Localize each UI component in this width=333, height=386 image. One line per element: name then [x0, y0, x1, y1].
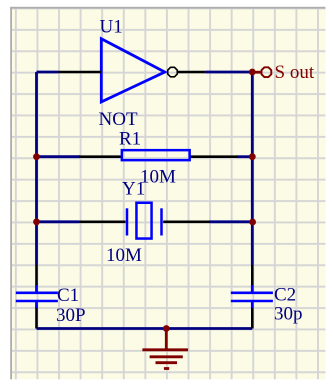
capacitor C2 body	[231, 285, 273, 308]
wire from Y1 right pin to right rail	[210, 220, 253, 223]
junction left rail to Y1	[33, 218, 40, 225]
junction right rail to Y1	[249, 219, 256, 226]
svg-text:R1: R1	[119, 129, 141, 150]
crystal Y1 left pin	[79, 221, 126, 224]
U1 inversion bubble	[168, 67, 178, 77]
wire from left rail to Y1 left pin	[37, 220, 80, 223]
wire from U1 output pin to node S out	[205, 71, 252, 74]
node S out connector stub	[252, 71, 260, 74]
svg-text:NOT: NOT	[99, 109, 138, 130]
crystal Y1 right electrode	[160, 208, 163, 235]
U1 output pin	[178, 71, 205, 74]
crystal Y1 left electrode	[126, 208, 129, 235]
U1 input pin	[59, 71, 102, 74]
wire from left rail corner to U1 input pin	[37, 71, 59, 74]
svg-text:C2: C2	[274, 285, 296, 306]
svg-text:10M: 10M	[140, 167, 176, 188]
crystal Y1 right pin	[163, 221, 210, 224]
junction right rail to R1	[249, 153, 256, 160]
inverter U1 (NOT gate) body	[101, 39, 165, 102]
capacitor C2 top pin	[251, 265, 254, 286]
svg-text:U1: U1	[100, 17, 123, 38]
ground symbol	[142, 329, 188, 369]
wire from left rail to R1 left pin	[37, 155, 81, 158]
crystal Y1 body	[136, 203, 151, 239]
node S out open circle terminal	[262, 67, 272, 77]
resistor R1 left pin	[79, 155, 121, 158]
resistor R1 right pin	[190, 155, 238, 158]
capacitor C1 bottom pin	[35, 306, 38, 329]
svg-text:30p: 30p	[274, 304, 303, 325]
capacitor C1 body	[16, 285, 58, 308]
wire bottom ground bus	[37, 327, 253, 330]
svg-text:10M: 10M	[106, 245, 142, 266]
junction left rail to R1	[33, 153, 40, 160]
resistor R1 body	[122, 150, 190, 160]
wire right vertical rail	[251, 72, 254, 265]
wire left vertical rail	[35, 72, 38, 265]
capacitor C1 top pin	[35, 265, 38, 286]
wire from R1 right pin to right rail	[237, 155, 253, 158]
capacitor C2 bottom pin	[251, 306, 254, 329]
svg-text:C1: C1	[57, 285, 79, 306]
svg-text:Y1: Y1	[122, 179, 145, 200]
svg-text:S out: S out	[275, 62, 315, 83]
junction ground bus	[163, 325, 170, 332]
junction at U1 output node	[249, 69, 256, 76]
svg-text:30P: 30P	[56, 305, 86, 326]
